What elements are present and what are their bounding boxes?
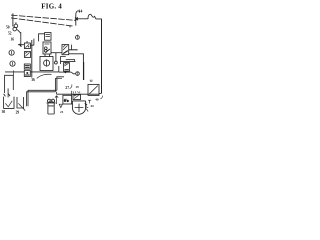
tick feet <box>4 94 10 97</box>
D3 connector to right line <box>99 92 102 94</box>
junction blob <box>19 44 21 47</box>
wire C4 to middle <box>30 71 59 73</box>
B1 right wires <box>69 49 78 51</box>
connector to boundary <box>15 22 17 24</box>
svg-text:FIG. 4: FIG. 4 <box>41 3 62 11</box>
left long wire <box>5 71 24 73</box>
svg-text:14: 14 <box>78 9 82 14</box>
svg-text:30: 30 <box>2 110 6 114</box>
upper middle valve E0 <box>45 33 51 41</box>
right border vertical line <box>101 19 103 94</box>
pressure switch circle 2 <box>10 61 15 66</box>
valve C3 <box>24 64 30 69</box>
boundary left vertical <box>12 13 14 26</box>
svg-text:50: 50 <box>6 26 10 30</box>
connectors E1 to E2 <box>45 54 50 57</box>
wire C1 right <box>30 39 34 46</box>
top right supply line <box>77 18 88 20</box>
svg-text:40: 40 <box>95 98 99 102</box>
suction pipe from tank <box>27 92 56 106</box>
manifold line over B3 <box>60 60 75 62</box>
tank 29 <box>17 97 24 108</box>
pump bowl <box>72 101 85 114</box>
squiggle in top right line <box>88 14 102 19</box>
svg-text:44: 44 <box>90 104 94 108</box>
svg-text:21: 21 <box>60 110 64 114</box>
valve C2 <box>24 52 30 58</box>
connector L into E0 <box>39 34 45 42</box>
pump cross <box>75 104 84 112</box>
gauge circle top right <box>76 36 80 40</box>
tank 30 <box>4 97 14 109</box>
valve C1 <box>24 43 30 49</box>
drop line into tank 30 <box>7 88 9 97</box>
marks right of pump <box>85 103 88 106</box>
valve B3 <box>64 63 70 72</box>
leader from valve <box>17 30 21 34</box>
regulator box E2 <box>40 57 53 71</box>
solenoid valve 50 (top left) <box>14 24 18 28</box>
wire into valve C1 <box>18 44 25 46</box>
svg-text:29: 29 <box>16 110 20 114</box>
svg-text:52: 52 <box>8 32 12 36</box>
pump inlet rail <box>57 93 99 95</box>
check valve box D3 <box>88 84 99 95</box>
svg-text:16: 16 <box>10 37 14 41</box>
left of D1 marks <box>55 96 58 104</box>
step wire to manifold <box>60 57 65 62</box>
valve D1 <box>63 95 72 104</box>
valve E1 <box>43 42 51 54</box>
valve C4 <box>24 70 30 76</box>
wire E1 right to B1 <box>51 52 62 54</box>
small u mark <box>90 80 92 82</box>
drop wire with plug <box>55 53 57 62</box>
gauge circle in E2 <box>44 60 50 66</box>
bottom rail with junction <box>59 71 71 73</box>
n-pipe left bottom <box>5 75 14 93</box>
wire down from valve <box>20 32 22 45</box>
hook curl at boundary end <box>76 11 80 14</box>
tiny labels above D2 <box>73 91 79 93</box>
B3 left wires <box>59 62 61 73</box>
junction blob at boundary end <box>75 17 78 20</box>
small triangle <box>59 104 62 107</box>
small relief valve marks bottom right <box>88 100 91 103</box>
boundary dashed line lower <box>11 18 72 27</box>
boundary right end bar <box>75 14 77 25</box>
valve D2 <box>73 95 81 100</box>
solenoid valve B1 <box>62 45 69 55</box>
circled 3 <box>76 72 80 76</box>
svg-text:27: 27 <box>65 86 69 90</box>
long wire right and down <box>69 54 84 80</box>
vertical rail beside C valves <box>31 40 33 78</box>
strainer / motor symbol <box>48 99 51 102</box>
svg-text:36: 36 <box>31 78 35 82</box>
boundary dashed line upper <box>11 15 76 20</box>
pipe riser <box>55 77 64 92</box>
svg-text:19: 19 <box>75 85 79 89</box>
wire B column to right <box>66 60 75 62</box>
pressure switch circle 1 <box>9 50 14 55</box>
